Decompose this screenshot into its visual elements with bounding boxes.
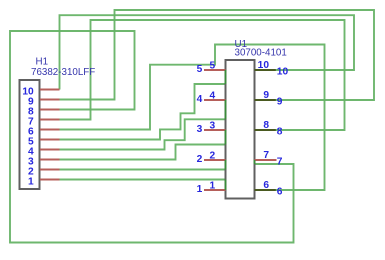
U1 pin 1 stub xyxy=(204,189,226,191)
wire net 7 : H1 pin7 - U1 pin8 xyxy=(60,20,345,130)
svg-text:7: 7 xyxy=(277,157,283,168)
wire net 9 : H1 pin9 - U1 pin9 xyxy=(60,10,375,100)
svg-text:5: 5 xyxy=(210,61,216,72)
net 5 edge run xyxy=(225,70,227,84)
svg-text:9: 9 xyxy=(277,97,283,108)
svg-text:3: 3 xyxy=(197,124,203,135)
svg-text:1: 1 xyxy=(197,184,203,195)
U1 pin 3 stub xyxy=(204,129,226,131)
svg-text:9: 9 xyxy=(263,90,269,101)
U1 pin 4 stub xyxy=(204,99,226,101)
H1 pin 4 stub xyxy=(40,149,60,151)
wire net 5 : H1 pin5 - U1 pin5 xyxy=(60,84,226,140)
H1 pin 10 stub xyxy=(40,89,60,91)
svg-text:1: 1 xyxy=(28,177,34,188)
net 1 edge run xyxy=(225,180,227,191)
svg-text:8: 8 xyxy=(263,120,269,131)
wire net 2 : H1 pin2 - U1 pin2 xyxy=(60,169,226,171)
U1 pin 8 stub xyxy=(255,129,276,131)
H1 pin 1 stub xyxy=(40,179,60,181)
svg-text:6: 6 xyxy=(277,187,283,198)
svg-text:8: 8 xyxy=(277,127,283,138)
U1 pin 5 stub xyxy=(204,69,226,71)
svg-text:4: 4 xyxy=(210,91,216,102)
wire net 3 : H1 pin3 - U1 pin3 xyxy=(60,145,226,160)
H1 pin 5 stub xyxy=(40,139,60,141)
svg-text:H1: H1 xyxy=(36,56,49,67)
svg-text:30700-4101: 30700-4101 xyxy=(235,48,287,59)
wire net 8 : H1 pin8 - U1 pin7 xyxy=(10,31,294,243)
U1 pin 6 stub xyxy=(255,189,276,191)
wire net 10 : H1 pin10 - U1 pin10 xyxy=(60,15,355,89)
H1 pin 3 stub xyxy=(40,159,60,161)
net 4 edge run xyxy=(225,100,227,119)
U1 pin 2 stub xyxy=(204,159,226,161)
wire net 6 : H1 pin6 - U1 pin6 xyxy=(60,45,325,191)
H1 pin 9 stub xyxy=(40,99,60,101)
svg-text:4: 4 xyxy=(197,94,203,105)
svg-text:10: 10 xyxy=(258,60,270,71)
H1 pin 2 stub xyxy=(40,169,60,171)
svg-text:6: 6 xyxy=(263,180,269,191)
net 2 edge run xyxy=(225,160,227,170)
net 3 edge run xyxy=(225,130,227,145)
svg-text:10: 10 xyxy=(277,67,289,78)
svg-text:1: 1 xyxy=(210,181,216,192)
wire net 4 : H1 pin4 - U1 pin4 xyxy=(60,119,226,149)
wire net 1 : H1 pin1 - U1 pin1 xyxy=(60,179,226,181)
svg-text:2: 2 xyxy=(197,154,203,165)
connector H1 body xyxy=(20,80,40,189)
U1 pin 9 stub xyxy=(255,99,276,101)
U1 pin 10 stub xyxy=(255,69,276,71)
H1 pin 6 stub xyxy=(40,129,60,131)
U1 pin 7 stub xyxy=(255,159,277,161)
svg-text:76382-310LFF: 76382-310LFF xyxy=(31,67,95,78)
svg-text:5: 5 xyxy=(197,64,203,75)
svg-text:2: 2 xyxy=(210,151,216,162)
net 8 edge run xyxy=(254,160,256,164)
H1 pin 8 stub xyxy=(40,109,60,111)
H1 pin 7 stub xyxy=(40,119,60,121)
connector U1 body xyxy=(226,60,255,199)
svg-text:3: 3 xyxy=(210,121,216,132)
svg-text:7: 7 xyxy=(263,150,269,161)
